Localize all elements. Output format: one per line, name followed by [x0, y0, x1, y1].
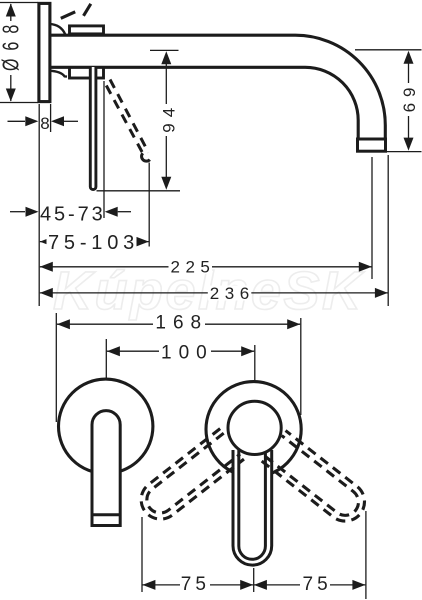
label 225 bg — [169, 259, 213, 274]
arrowhead 100 right — [241, 346, 254, 356]
extension line spout axis right (69 top) — [355, 49, 422, 51]
extension line aerator center (225 right) — [371, 157, 373, 279]
dashed lever up position (clipped at top) — [61, 4, 91, 18]
extension line lever bottom (94) — [97, 190, 181, 192]
extension line 75 right — [365, 511, 367, 599]
dashed lever right position (front) — [262, 431, 373, 529]
arrowhead 8 right (pointing left) — [51, 116, 64, 126]
extension line 100 left — [105, 339, 107, 407]
dimension 94 — [165, 58, 167, 180]
arrowhead 236 right — [375, 288, 388, 298]
aerator box (side) — [358, 139, 386, 151]
handle escutcheon circle (front) — [206, 382, 301, 477]
long extension line wall face — [38, 104, 40, 306]
arrowhead 168 right — [287, 319, 300, 329]
dashed lever end hook — [142, 153, 150, 161]
svg-text:94: 94 — [159, 102, 178, 133]
label 168 bg — [153, 315, 205, 331]
handle hub top fillet (side) — [50, 24, 66, 34]
spout escutcheon circle (front) — [58, 379, 152, 473]
dimension 75 right — [253, 584, 365, 586]
dashed lever down-right position (side) — [106, 80, 148, 157]
arrowhead 45-73 right (pointing left) — [105, 207, 118, 217]
extension line 100 right — [254, 345, 256, 399]
dimension 225 — [40, 266, 372, 268]
watermark KupelneSK — [53, 261, 365, 321]
solid lever (front, down) inner contour — [239, 450, 266, 559]
label 75-103 bg — [47, 233, 137, 250]
label 100 bg — [159, 345, 211, 361]
spout outer edge — [50, 35, 385, 147]
arrowhead 69 down — [404, 138, 414, 151]
svg-text:75: 75 — [181, 574, 210, 595]
spout front (slot with aerator) — [92, 411, 120, 526]
svg-text:168: 168 — [155, 312, 208, 333]
extension line top of plate (O68) — [0, 2, 38, 4]
dimension 236 — [40, 292, 388, 294]
dimension 75-103 — [40, 241, 149, 243]
dimension 100 — [107, 350, 254, 352]
arrowhead 168 left — [57, 319, 70, 329]
tick spout axis (94 top) — [150, 49, 179, 51]
arrowhead 75 far right — [352, 580, 365, 590]
svg-text:69: 69 — [400, 81, 419, 112]
handle hub top collar (side) — [70, 26, 104, 34]
svg-text:8: 8 — [40, 114, 49, 133]
extension line hub face (45-73 right) — [103, 81, 105, 218]
svg-text:225: 225 — [171, 258, 216, 277]
spout aerator line (front) — [92, 513, 120, 516]
extension line 168 right — [300, 318, 302, 415]
spout tube (side) white fill — [52, 35, 385, 147]
arrowhead 94 up — [161, 51, 171, 64]
handle hub bottom fillet (side) — [50, 71, 68, 77]
svg-text:236: 236 — [210, 284, 255, 303]
spout inner edge — [50, 67, 358, 147]
dimension 45-73 — [10, 211, 25, 213]
extension line bottom of plate (O68) — [0, 102, 38, 104]
handle hub bottom collar (side) — [70, 67, 104, 78]
extension line plate right edge (8) — [50, 104, 52, 132]
svg-text:45-73: 45-73 — [40, 204, 106, 226]
wall plate (side) — [39, 3, 50, 101]
label 75 right bg — [300, 576, 330, 592]
dimension 69 — [408, 57, 410, 144]
arrowhead 225 left — [40, 262, 53, 272]
extension line spout face (236 right) — [387, 155, 389, 306]
arrowhead 75 center right — [254, 580, 267, 590]
arrowhead 69 up — [404, 51, 414, 64]
svg-text:75: 75 — [303, 574, 332, 595]
dimension 8 — [8, 120, 26, 122]
dimension 75 left — [142, 584, 253, 586]
arrowhead 45-73 left (pointing right) — [26, 207, 39, 217]
arrowhead 236 left — [40, 288, 53, 298]
arrowhead 75 far left — [142, 580, 155, 590]
extension line 75 left — [141, 517, 143, 592]
arrowhead 8 left (pointing right) — [25, 116, 38, 126]
arrowhead 100 left — [107, 346, 120, 356]
arrowhead 94 down — [161, 177, 171, 190]
extension line dashed lever tip (75-103 right) — [148, 163, 150, 247]
dashed lever left position (front) — [133, 429, 244, 527]
dimension O68 vertical line — [10, 4, 12, 101]
label 236 bg — [208, 286, 252, 301]
solid lever (front, down) outer — [233, 450, 272, 565]
svg-text:100: 100 — [161, 342, 214, 363]
extension line outlet (69 bottom) — [387, 151, 422, 153]
extension line 168 left — [55, 313, 57, 422]
arrowhead O68 up — [6, 4, 16, 17]
svg-text:75-103: 75-103 — [48, 232, 139, 254]
arrowhead 75 center left — [240, 580, 253, 590]
label 75 left bg — [180, 576, 210, 592]
arrowhead O68 down — [6, 89, 16, 102]
arrowhead 225 right — [359, 262, 372, 272]
dimension 168 — [57, 323, 300, 325]
arrowhead 75-103 left — [40, 237, 53, 247]
extension line 75 center — [253, 568, 255, 592]
handle hub circle (front) — [228, 401, 281, 454]
arrowhead 75-103 right — [136, 237, 149, 247]
lever handle side view (solid, down) — [90, 67, 96, 190]
svg-text:Ø68: Ø68 — [0, 17, 24, 71]
